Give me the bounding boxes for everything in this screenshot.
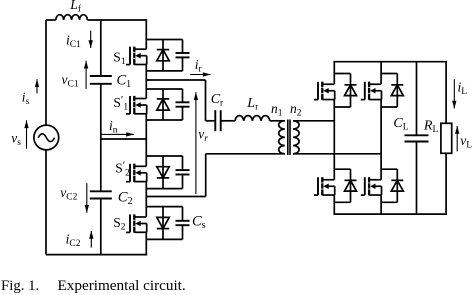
wire loop of cell Q3 (bottom-left) xyxy=(334,169,350,202)
wire capacitor-branch lower xyxy=(100,198,102,254)
arrow for v_C2 xyxy=(85,183,89,213)
wire capacitor-branch middle xyxy=(100,84,102,192)
wire leg B segments xyxy=(380,62,382,214)
diode of Q4 (bottom-right) xyxy=(391,169,403,202)
wire loop of cell S2 xyxy=(146,207,182,240)
inductor L_r xyxy=(235,116,270,121)
arrow for i_n xyxy=(101,132,135,136)
body diode of S1 xyxy=(157,40,169,71)
arrow for i_r xyxy=(190,72,210,76)
snubber capacitor of S2' xyxy=(176,156,190,189)
resistor R_L xyxy=(441,123,452,153)
transistor S1' (MOSFET) xyxy=(126,96,147,114)
capacitor C1 xyxy=(90,76,112,84)
wire loop of cell Q2 (top-right) xyxy=(381,74,397,108)
wire transformer return xyxy=(146,154,284,197)
wire loop of cell Q1 (top-left) xyxy=(334,74,350,108)
transistor Q1 (top-left) (MOSFET) xyxy=(314,82,335,100)
snubber capacitor of S1' xyxy=(176,89,190,120)
arrow for v_C1 xyxy=(84,61,88,89)
AC source v_s xyxy=(34,125,59,150)
wire output top rail xyxy=(333,61,447,63)
rail segments of cell S1' xyxy=(145,89,147,120)
arrow for i_C1 xyxy=(89,31,93,48)
arrow for i_s xyxy=(35,79,39,93)
wire loop of cell S1' xyxy=(146,89,182,120)
rail segments of cell S1 xyxy=(145,40,147,71)
transformer primary winding n1 xyxy=(279,121,285,154)
transformer core xyxy=(288,120,290,156)
diode of Q2 (top-right) xyxy=(391,74,403,108)
svg-text:Fig. 1.: Fig. 1. xyxy=(1,278,39,294)
svg-text:Experimental circuit.: Experimental circuit. xyxy=(58,277,186,294)
arrow for v_L xyxy=(455,126,459,151)
wire bridge rail segments xyxy=(145,20,147,255)
arrow for v_s xyxy=(24,120,28,149)
wire loop of cell S1 xyxy=(146,40,182,71)
wire left vertical (source branch) xyxy=(45,20,47,255)
rail segments of cell Q3 (bottom-left) xyxy=(333,169,335,202)
rail segments of cell S2' xyxy=(145,156,147,189)
wire L_r to transformer xyxy=(270,120,285,122)
rail segments of cell S2 xyxy=(145,207,147,240)
wire top-left xyxy=(46,19,56,21)
transistor S1 (MOSFET) xyxy=(126,47,147,65)
snubber capacitor of S1 xyxy=(176,40,190,71)
wire capacitor-branch upper xyxy=(100,20,102,76)
body diode of S2' xyxy=(157,156,169,189)
capacitor C2 xyxy=(90,191,112,198)
transistor Q4 (bottom-right) (MOSFET) xyxy=(361,177,382,195)
wire loop of cell Q4 (bottom-right) xyxy=(381,169,397,202)
wire i_r midpoint to C_r xyxy=(146,80,215,121)
rail segments of cell Q4 (bottom-right) xyxy=(380,169,382,202)
body diode of S1' xyxy=(157,89,169,120)
arrow for i_C2 xyxy=(89,231,93,248)
transistor S2' (MOSFET) xyxy=(126,164,147,182)
wire secondary top lead xyxy=(293,120,334,122)
arrow for v_r xyxy=(194,92,198,194)
wire leg A segments xyxy=(333,62,335,214)
wire secondary bottom lead xyxy=(293,153,381,155)
wire load branch xyxy=(445,62,447,214)
capacitor C_L xyxy=(405,135,429,141)
wire C_r to L_r xyxy=(221,120,235,122)
body diode of S2 xyxy=(157,207,169,240)
wire C_L branch xyxy=(416,62,418,214)
transistor Q3 (bottom-left) (MOSFET) xyxy=(314,177,335,195)
rail segments of cell Q1 (top-left) xyxy=(333,74,335,108)
snubber capacitor of S2 xyxy=(176,207,190,240)
inductor L_f xyxy=(56,15,88,20)
diode of Q3 (bottom-left) xyxy=(345,169,357,202)
wire bottom rail xyxy=(46,254,147,256)
transformer secondary winding n2 xyxy=(293,121,299,154)
wire loop of cell S2' xyxy=(146,156,182,189)
rail segments of cell Q2 (top-right) xyxy=(380,74,382,108)
diode of Q1 (top-left) xyxy=(345,74,357,108)
capacitor C_r xyxy=(215,110,220,131)
wire output bottom rail xyxy=(333,213,447,215)
wire top (L_f to bridge) xyxy=(87,19,147,21)
transistor Q2 (top-right) (MOSFET) xyxy=(361,82,382,100)
wire neutral (i_n) xyxy=(101,138,147,140)
transistor S2 (MOSFET) xyxy=(126,214,147,232)
arrow for i_L xyxy=(452,79,456,108)
